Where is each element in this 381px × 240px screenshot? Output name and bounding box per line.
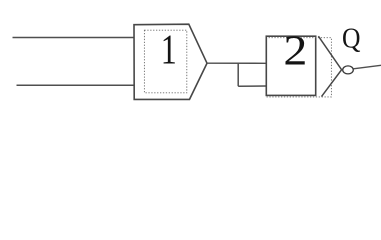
wire output Q	[353, 65, 381, 69]
wire input B	[17, 84, 135, 86]
gate U1 body (element 1)	[134, 24, 207, 99]
svg-text:2: 2	[283, 27, 307, 74]
wire branch vertical	[237, 63, 239, 86]
wire input A	[13, 37, 135, 39]
svg-text:Q: Q	[342, 23, 361, 55]
svg-text:1: 1	[161, 26, 177, 73]
gate U1 dashed inner box	[144, 30, 186, 93]
gate U2 body (element 2)	[266, 36, 315, 95]
wire branch lower	[238, 85, 266, 87]
gate U2 output triangle	[318, 36, 341, 96]
wire U1 output	[207, 62, 266, 64]
gate U2 dashed box	[266, 38, 331, 97]
inversion bubble	[343, 66, 354, 74]
